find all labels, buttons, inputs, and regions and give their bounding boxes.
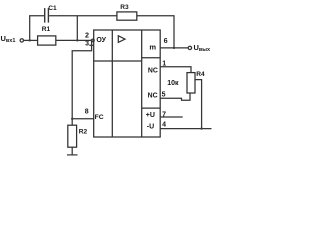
wire C1 to R3 <box>49 15 117 17</box>
resistor R4 <box>187 73 195 93</box>
resistor R2 <box>68 125 77 147</box>
divider U cell <box>142 107 161 109</box>
svg-text:NC: NC <box>148 92 158 99</box>
svg-text:R2: R2 <box>79 128 88 135</box>
wire to R2 <box>71 119 73 125</box>
svg-text:NC: NC <box>148 68 158 75</box>
svg-text:8: 8 <box>85 108 89 115</box>
wire output pin 6 <box>160 47 188 49</box>
svg-text:R3: R3 <box>120 4 129 11</box>
wire input to R1 <box>24 39 38 41</box>
svg-text:C1: C1 <box>48 5 57 12</box>
wire pin2 drop from feedback line <box>76 16 78 41</box>
wire feedback top line <box>30 16 44 41</box>
svg-text:7: 7 <box>162 111 166 118</box>
svg-text:-U: -U <box>147 124 154 131</box>
svg-text:Uвых: Uвых <box>194 43 212 53</box>
ground <box>67 154 78 156</box>
capacitor C1 <box>44 8 46 23</box>
op-amp U1 box <box>94 30 161 137</box>
svg-text:10к: 10к <box>167 80 179 87</box>
resistor R3 <box>117 12 137 20</box>
node pin8 junction <box>71 118 73 120</box>
wire pin 7 stub <box>160 116 183 118</box>
node output junction <box>173 47 175 49</box>
output terminal Uvyx <box>188 46 191 49</box>
wire R4 wiper <box>195 80 202 129</box>
svg-text:6: 6 <box>164 36 168 45</box>
node pin2 junction <box>90 39 92 41</box>
input terminal Uvx1 <box>20 39 23 42</box>
wire pin 8 <box>72 118 94 120</box>
node input junction <box>29 39 31 41</box>
divider left strip <box>111 30 113 137</box>
wire pin 1 <box>160 67 191 73</box>
amplifier triangle <box>118 36 125 43</box>
svg-text:+U: +U <box>146 112 155 119</box>
svg-text:R4: R4 <box>196 71 205 78</box>
svg-text:4: 4 <box>162 122 166 129</box>
svg-text:3: 3 <box>85 40 89 47</box>
resistor R1 <box>38 36 56 45</box>
svg-text:ОУ: ОУ <box>96 37 106 44</box>
wire pin 5 <box>160 93 190 100</box>
wire pin3 to R2 branch <box>72 40 91 118</box>
svg-text:1: 1 <box>162 61 166 68</box>
node C1/R3 junction <box>76 39 78 41</box>
node wiper junction <box>200 127 202 129</box>
divider horizontal left <box>94 60 142 62</box>
svg-text:5: 5 <box>162 92 166 99</box>
svg-text:R1: R1 <box>42 26 51 33</box>
svg-text:m: m <box>149 43 156 52</box>
divider m cell <box>142 57 161 59</box>
wire pin 4 rail <box>160 128 211 130</box>
svg-text:FC: FC <box>95 114 104 121</box>
wire R2 to ground <box>71 147 73 155</box>
wire pin3 stub <box>89 44 93 46</box>
wire R1 to pin 2 <box>56 39 92 41</box>
inverting input circle <box>92 39 95 42</box>
svg-text:2: 2 <box>85 31 89 40</box>
wire R3 to output <box>137 16 174 48</box>
divider right column <box>141 30 143 137</box>
svg-text:Uвх1: Uвх1 <box>1 34 16 44</box>
